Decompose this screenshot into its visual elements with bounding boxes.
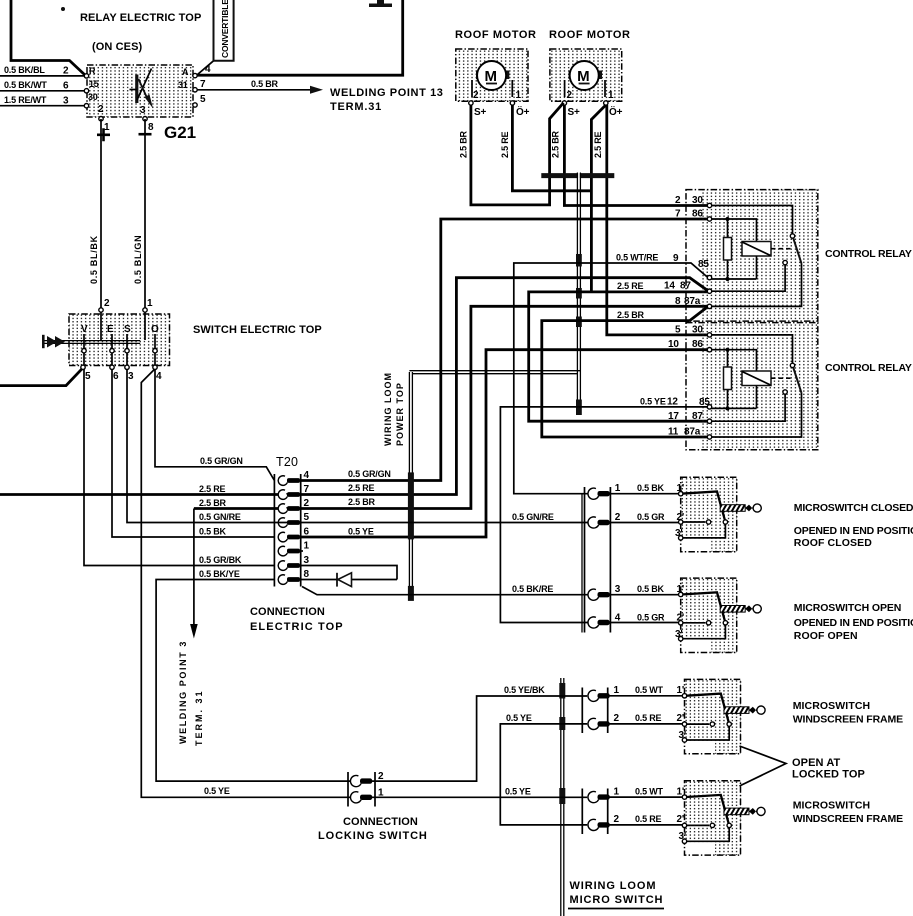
svg-text:0.5 GN/RE: 0.5 GN/RE	[512, 512, 554, 522]
microswitch open body	[679, 578, 762, 652]
svg-text:T20: T20	[276, 455, 298, 469]
locking switch connector pin 1	[350, 792, 372, 803]
G21 bottom pin circles	[99, 117, 103, 121]
svg-text:2': 2'	[677, 713, 685, 724]
svg-text:S+: S+	[474, 107, 486, 118]
svg-text:2.5 RE: 2.5 RE	[348, 483, 375, 493]
T20 pin 4	[278, 476, 287, 486]
loom junction mark YE/BK	[559, 683, 565, 699]
svg-text:1: 1	[614, 685, 620, 696]
wire 0.5 WT to windscreen2 pin 1'	[609, 796, 683, 798]
control relay 1 pin 86 internal	[711, 219, 757, 242]
svg-text:0.5 YE/BK: 0.5 YE/BK	[504, 685, 545, 695]
svg-text:G21: G21	[164, 123, 196, 142]
svg-text:WELDING POINT 3: WELDING POINT 3	[178, 640, 188, 744]
wire 0.5 YE T20 pin6 up to control relay 2 pin 86	[301, 350, 708, 537]
svg-text:3: 3	[63, 96, 69, 107]
control relay 1 pin 30 internal	[711, 206, 793, 234]
svg-text:5: 5	[200, 94, 206, 105]
svg-text:0.5 YE: 0.5 YE	[506, 713, 532, 723]
svg-text:OPENED IN END POSITION: OPENED IN END POSITION	[794, 617, 913, 629]
G21 right pin circles	[193, 73, 197, 77]
svg-text:WINDSCREEN FRAME: WINDSCREEN FRAME	[793, 813, 903, 825]
svg-text:1: 1	[614, 787, 620, 798]
svg-text:2: 2	[615, 512, 621, 523]
svg-text:3': 3'	[675, 629, 683, 640]
wire G21 pin8 down 0.5 BL/GN	[144, 119, 146, 308]
control relay 1 resistor	[727, 219, 729, 279]
svg-text:2: 2	[473, 90, 479, 101]
stray dot	[61, 7, 65, 11]
svg-text:M: M	[485, 68, 498, 85]
svg-text:TERM.31: TERM.31	[330, 101, 382, 113]
control relay 2 pin circles	[707, 333, 711, 337]
wire 2.5 BR motor1 pin2 down and right	[471, 103, 564, 205]
svg-text:30: 30	[692, 325, 703, 336]
wire 0.5 BK/WT to pin 6	[0, 90, 85, 92]
relay electric top box outline left	[11, 0, 86, 76]
svg-text:0.5 GN/RE: 0.5 GN/RE	[199, 512, 241, 522]
control relay 2 dotted body	[702, 323, 818, 450]
svg-text:OPEN AT: OPEN AT	[792, 757, 841, 769]
wire 0.5 YE/BK locking pin2 to windscreen1 pin1	[372, 696, 588, 781]
control relay 2 coil-contact link	[771, 377, 791, 379]
svg-text:0.5 BR: 0.5 BR	[251, 79, 279, 89]
svg-text:6: 6	[63, 81, 69, 92]
svg-text:ROOF OPEN: ROOF OPEN	[794, 630, 858, 642]
svg-text:85: 85	[698, 259, 709, 270]
svg-text:OPENED IN END POSITION: OPENED IN END POSITION	[794, 525, 913, 537]
svg-text:0.5 YE: 0.5 YE	[348, 527, 374, 537]
loom stem junction marks	[576, 254, 582, 267]
svg-text:0.5 BK: 0.5 BK	[637, 584, 665, 594]
svg-text:1: 1	[104, 122, 110, 133]
control relay 2 pin 85 internal	[711, 407, 757, 409]
svg-text:0.5 BK: 0.5 BK	[637, 483, 665, 493]
windscreen 1 connector pin 1	[588, 690, 610, 701]
svg-text:7: 7	[304, 484, 310, 495]
roof motor 2 dotted body	[550, 49, 622, 101]
thick wire from switch pin 5 to left edge	[0, 369, 82, 386]
svg-text:WELDING POINT 13: WELDING POINT 13	[330, 87, 444, 99]
svg-text:0.5 BK: 0.5 BK	[199, 527, 227, 537]
microswitch windscreen frame 1 body	[682, 679, 765, 753]
open at locked top pointer	[740, 746, 787, 786]
svg-text:8: 8	[148, 122, 154, 133]
svg-text:R: R	[89, 66, 96, 76]
T20 pin symbols	[278, 476, 300, 486]
control relay 2 arm to 87a	[711, 393, 802, 437]
svg-text:0.5 WT/RE: 0.5 WT/RE	[616, 253, 658, 263]
wire 0.5 BK switch pin6 to T20 pin6	[112, 369, 274, 537]
control relay 1 coil	[742, 242, 771, 257]
control relay 1 arm to 87a	[711, 264, 802, 307]
svg-text:10: 10	[668, 339, 679, 350]
wire 0.5 YE locking pin1 to windscreen2 pin1	[372, 796, 588, 798]
svg-text:CONVERTIBLE D: CONVERTIBLE D	[220, 0, 230, 58]
svg-text:2.5 BR: 2.5 BR	[459, 130, 469, 158]
svg-text:1': 1'	[677, 787, 685, 798]
svg-text:5: 5	[85, 371, 91, 382]
svg-text:14: 14	[664, 281, 675, 292]
svg-text:1': 1'	[677, 483, 685, 494]
relay G21 dotted body	[87, 65, 193, 117]
switch shaft double line	[45, 341, 141, 344]
svg-text:MICROSWITCH: MICROSWITCH	[793, 800, 871, 812]
svg-text:2: 2	[614, 814, 620, 825]
microswitch closed body	[679, 477, 762, 551]
svg-text:Ö+: Ö+	[516, 105, 530, 118]
svg-text:2.5 BR: 2.5 BR	[551, 130, 561, 158]
wiring loom micro switch upper line	[581, 494, 583, 633]
svg-text:2: 2	[614, 713, 620, 724]
wire 2.5 BR branch to both relay 87a pins	[542, 307, 708, 438]
svg-text:3': 3'	[679, 831, 687, 842]
svg-text:7: 7	[675, 209, 681, 220]
switch internal stubs from pins 2 and 1	[101, 312, 145, 340]
control relay 1 dotted body	[702, 190, 818, 322]
svg-text:8: 8	[675, 296, 681, 307]
relay electric top box outline right	[197, 0, 403, 75]
plus symbol	[97, 128, 110, 141]
svg-text:3': 3'	[675, 528, 683, 539]
control relay 2 resistor	[727, 350, 729, 409]
switch manual actuator handle	[42, 335, 45, 348]
microswitch closed connector pin 2	[588, 517, 610, 528]
svg-text:4: 4	[304, 470, 310, 481]
svg-text:1: 1	[615, 483, 621, 494]
wire 2.5 RE T20 pin7 up to control relay 1 pin 87	[0, 278, 708, 495]
svg-text:0.5 YE: 0.5 YE	[640, 397, 666, 407]
power loom double line	[409, 372, 412, 601]
svg-text:2: 2	[63, 66, 69, 77]
connection locking switch strip	[348, 772, 375, 807]
svg-text:TERM. 31: TERM. 31	[194, 689, 204, 746]
svg-text:0.5 BK/RE: 0.5 BK/RE	[512, 584, 553, 594]
connection microswitch strip upper	[585, 487, 611, 633]
connection windscreen 2 strip	[582, 789, 607, 835]
roof motor 2 motor symbol	[570, 61, 599, 90]
svg-text:2': 2'	[677, 512, 685, 523]
svg-text:2': 2'	[677, 613, 685, 624]
svg-text:S: S	[124, 324, 131, 335]
svg-text:2: 2	[104, 298, 110, 309]
svg-text:1': 1'	[677, 584, 685, 595]
wire 0.5 GR/GN T20 pin4 up to control relay 1 pin 86	[301, 219, 708, 481]
svg-text:0.5 BK/BL: 0.5 BK/BL	[4, 65, 45, 75]
wire 2.5 BR motor2 pin2 straight down to control relay 1 pin 30	[564, 105, 707, 206]
control relay 1 contact pivot	[790, 234, 794, 238]
svg-text:1: 1	[147, 298, 153, 309]
minus symbol	[139, 133, 152, 136]
svg-text:9: 9	[673, 253, 679, 264]
roof motor 1 pin circles	[469, 101, 473, 105]
wiring loom stem double line	[577, 173, 580, 401]
control relay 1 coil-contact link	[771, 248, 791, 250]
roof motor 1 brush tabs	[476, 71, 483, 80]
svg-text:WIRING LOOM: WIRING LOOM	[383, 372, 393, 446]
svg-text:31: 31	[178, 80, 188, 90]
control relay 2 coil	[742, 371, 771, 386]
wire 1.5 RE/WT to pin 3	[0, 105, 85, 107]
svg-text:0.5 BL/GN: 0.5 BL/GN	[133, 235, 143, 284]
svg-text:E: E	[107, 324, 114, 335]
svg-text:POWER TOP: POWER TOP	[395, 382, 405, 446]
svg-text:3: 3	[615, 584, 621, 595]
svg-text:MICROSWITCH OPEN: MICROSWITCH OPEN	[794, 602, 901, 614]
wire 2.5 RE motor1 pin1 down	[512, 105, 591, 191]
wire 0.5 GR/GN switch pin4 to T20 pin4	[155, 369, 274, 481]
svg-text:87a: 87a	[684, 427, 701, 438]
roof motor 2 brush tabs	[569, 71, 576, 80]
wire 0.5 WT to windscreen1 pin 1'	[609, 695, 683, 697]
svg-text:0.5 GR: 0.5 GR	[637, 613, 665, 623]
wire 2.5 RE branch to both relay 87 pins	[529, 292, 710, 421]
svg-text:2: 2	[304, 498, 310, 509]
svg-text:MICROSWITCH CLOSED: MICROSWITCH CLOSED	[794, 502, 913, 514]
svg-text:86: 86	[692, 209, 703, 220]
wire 0.5 GR to microswitch open pin 2'	[609, 622, 679, 624]
svg-text:12: 12	[667, 397, 678, 408]
wire G21 pin1 down 0.5 BL/BK	[100, 119, 102, 308]
svg-text:0.5 YE: 0.5 YE	[505, 787, 531, 797]
G21 contact bar	[135, 75, 138, 104]
svg-text:15: 15	[89, 79, 99, 89]
svg-text:17: 17	[668, 411, 679, 422]
wire diagonal pin4 to convertible box	[198, 61, 214, 75]
svg-text:3': 3'	[679, 730, 687, 741]
svg-text:3: 3	[304, 555, 310, 566]
power loom top double line	[409, 371, 580, 374]
wire 2.5 RE motor2 pin1 down to control relay 2 pin 30	[607, 105, 708, 335]
wire 0.5 GN/RE T20 pin5 to microswitch closed pin 2	[274, 522, 587, 524]
svg-text:8: 8	[304, 569, 310, 580]
G21 left pin circles	[84, 74, 88, 78]
wire 0.5 BK to microswitch closed pin 1'	[609, 493, 679, 495]
switch top pin circles	[99, 308, 103, 312]
wire 0.5 BK/BL to pin 2	[0, 75, 85, 77]
wire 2.5 BR T20 pin2 up to control relay 1 pin 87a and motor1	[194, 306, 708, 508]
G21 contact arrow	[139, 79, 149, 100]
control relay 1 contact arm	[793, 238, 801, 264]
svg-text:4: 4	[156, 371, 162, 382]
wire 2.5 RE motor2 pin1 diagonal down	[591, 105, 605, 292]
svg-text:RELAY ELECTRIC TOP: RELAY ELECTRIC TOP	[80, 12, 201, 24]
svg-text:30: 30	[692, 195, 703, 206]
svg-text:SWITCH ELECTRIC TOP: SWITCH ELECTRIC TOP	[193, 324, 322, 336]
G21 contact tick	[130, 89, 137, 91]
svg-text:0.5 GR/BK: 0.5 GR/BK	[199, 555, 242, 565]
svg-text:A: A	[182, 67, 189, 77]
microswitch open connector pin 4	[588, 617, 610, 628]
control relay 2 pin 86 internal	[711, 350, 757, 371]
svg-text:CONNECTION: CONNECTION	[343, 816, 418, 828]
connection electric top strip	[274, 474, 300, 587]
svg-text:1': 1'	[677, 685, 685, 696]
svg-text:ROOF CLOSED: ROOF CLOSED	[794, 537, 872, 549]
T20 pin1 stub	[301, 550, 303, 552]
connection windscreen 1 strip	[582, 688, 607, 734]
svg-text:2: 2	[98, 104, 104, 115]
svg-text:0.5 GR/GN: 0.5 GR/GN	[348, 469, 391, 479]
svg-text:3: 3	[128, 371, 134, 382]
control relay 2 contact pivot	[790, 363, 794, 367]
svg-text:0.5 YE: 0.5 YE	[204, 786, 230, 796]
wiring loom junction bar	[541, 173, 614, 178]
svg-text:(ON CES): (ON CES)	[92, 41, 143, 53]
roof motor 1 internal wires	[472, 80, 512, 97]
svg-text:0.5 WT: 0.5 WT	[635, 685, 664, 695]
svg-text:ROOF MOTOR: ROOF MOTOR	[549, 29, 631, 41]
svg-text:3: 3	[140, 105, 146, 116]
convertible determination box	[214, 0, 234, 61]
locking switch connector pin 2	[350, 775, 372, 786]
welding point 3 ground wire	[193, 509, 195, 627]
svg-text:4: 4	[615, 613, 621, 624]
wire 0.5 BK/RE T20 pin8 to microswitch open pin 3	[302, 587, 588, 595]
switch internal contact stubs	[84, 334, 155, 348]
roof motor 2 internal wires	[565, 80, 605, 97]
svg-text:0.5 GR: 0.5 GR	[637, 512, 665, 522]
svg-text:ROOF MOTOR: ROOF MOTOR	[455, 29, 537, 41]
wire 0.5 YE microswitch open pin2 up to control relay 2 pin 85	[500, 407, 707, 623]
control relay 2 contact 87	[783, 390, 787, 394]
svg-text:7: 7	[200, 79, 206, 90]
wiring loom micro switch lower double line	[561, 678, 564, 916]
svg-text:2.5 BR: 2.5 BR	[348, 497, 376, 507]
svg-text:ELECTRIC TOP: ELECTRIC TOP	[250, 621, 344, 633]
wire 0.5 GR/BK switch pin5 to T20 pin3	[84, 369, 274, 566]
svg-text:Ö+: Ö+	[609, 105, 623, 118]
wire 0.5 GR to microswitch closed pin 2'	[609, 522, 679, 524]
svg-text:1: 1	[516, 90, 522, 101]
svg-text:1: 1	[304, 541, 310, 552]
svg-text:87: 87	[680, 281, 691, 292]
svg-text:0.5 BK/YE: 0.5 BK/YE	[199, 569, 240, 579]
svg-text:MICROSWITCH: MICROSWITCH	[793, 700, 871, 712]
svg-text:0.5 RE: 0.5 RE	[635, 713, 662, 723]
svg-text:0.5 RE: 0.5 RE	[635, 814, 662, 824]
svg-text:5: 5	[304, 512, 310, 523]
svg-text:30: 30	[88, 92, 98, 102]
svg-text:S+: S+	[568, 107, 580, 118]
svg-text:2.5 RE: 2.5 RE	[199, 484, 226, 494]
svg-text:0.5 BL/BK: 0.5 BL/BK	[89, 235, 99, 284]
wire T20 pin8 to diode	[301, 579, 337, 581]
svg-text:2.5 RE: 2.5 RE	[500, 131, 510, 158]
svg-text:6: 6	[113, 371, 119, 382]
loom junction mark YE	[559, 717, 565, 730]
svg-text:87: 87	[692, 411, 703, 422]
microswitch closed connector pin 1	[588, 488, 610, 499]
windscreen 2 connector pin 2	[588, 819, 610, 830]
svg-text:LOCKED TOP: LOCKED TOP	[792, 769, 865, 781]
roof motor 2 pin circles	[562, 101, 566, 105]
control relay 2 contact arm	[793, 367, 801, 393]
svg-text:CONNECTION: CONNECTION	[250, 606, 325, 618]
windscreen 1 connector pin 2	[588, 718, 610, 729]
wire 0.5 GN/RE switch pin3 to T20 pin5	[127, 369, 274, 523]
svg-text:0.5 WT: 0.5 WT	[635, 787, 664, 797]
svg-text:86: 86	[692, 339, 703, 350]
wire 0.5 BR pin7 to welding point 13	[197, 89, 312, 91]
control relay 1 pin 85 internal	[711, 278, 757, 280]
wire 0.5 YE windscreen1 pin2 to windscreen2 pin2	[500, 724, 587, 825]
loom junction mark windscreen2	[559, 788, 565, 804]
svg-text:2': 2'	[677, 814, 685, 825]
svg-text:2.5 RE: 2.5 RE	[617, 281, 644, 291]
svg-text:87a: 87a	[684, 296, 701, 307]
windscreen 2 connector pin 1	[588, 791, 610, 802]
svg-text:2.5 BR: 2.5 BR	[199, 498, 227, 508]
partial numeral 1 top	[377, 0, 384, 5]
wire 0.5 RE to windscreen1 pin 2'	[609, 723, 683, 725]
svg-text:2: 2	[567, 90, 573, 101]
microswitch windscreen frame 2 body	[682, 781, 765, 855]
svg-text:O: O	[151, 324, 159, 335]
wire 0.5 WT/RE microswitch closed pin1 up to control relay 1 pin 85	[514, 263, 708, 494]
svg-text:0.5 GR/GN: 0.5 GR/GN	[200, 456, 243, 466]
svg-text:CONTROL RELAY: CONTROL RELAY	[825, 248, 912, 260]
roof motor 1 dotted body	[456, 49, 528, 101]
svg-text:4: 4	[205, 64, 211, 75]
svg-text:WINDSCREEN FRAME: WINDSCREEN FRAME	[793, 714, 903, 726]
control relay 1 contact 87	[783, 260, 787, 264]
svg-text:V: V	[81, 324, 88, 335]
svg-text:M: M	[577, 68, 590, 85]
switch internal contact circles	[82, 349, 86, 353]
svg-text:0.5 BK/WT: 0.5 BK/WT	[4, 80, 47, 90]
svg-text:5: 5	[675, 325, 681, 336]
switch bottom stubs	[84, 353, 155, 365]
switch bottom pin circles	[81, 365, 85, 369]
svg-text:1.5 RE/WT: 1.5 RE/WT	[4, 95, 47, 105]
svg-text:11: 11	[668, 427, 679, 438]
svg-text:2: 2	[675, 195, 681, 206]
power loom junction mark upper	[408, 472, 414, 539]
switch electric top dotted body	[69, 314, 170, 366]
roof motor 1 motor symbol	[477, 61, 506, 90]
control relay 1 pin circles	[707, 203, 711, 207]
diode loop wire T20 pin3	[301, 566, 397, 580]
svg-text:MICRO SWITCH: MICRO SWITCH	[570, 894, 664, 906]
wire 0.5 BK to microswitch open pin 1'	[609, 594, 679, 596]
loom stem end cap	[576, 400, 582, 416]
wire 0.5 RE to windscreen2 pin 2'	[609, 824, 683, 826]
svg-text:CONTROL RELAY: CONTROL RELAY	[825, 362, 912, 374]
svg-text:6: 6	[304, 527, 310, 538]
power loom junction mark lower	[408, 586, 414, 601]
svg-text:85: 85	[699, 397, 710, 408]
svg-text:2.5 RE: 2.5 RE	[593, 131, 603, 158]
diode	[336, 573, 338, 587]
svg-text:WIRING LOOM: WIRING LOOM	[570, 880, 657, 892]
wire 0.5 BK/YE T20 pin8 down to locking switch pin2	[156, 580, 352, 782]
wire 0.5 YE switch pin4 down to locking switch pin1	[141, 370, 352, 798]
microswitch open connector pin 3	[588, 589, 610, 600]
svg-text:2.5 BR: 2.5 BR	[617, 310, 645, 320]
control relay 2 pin 30 internal	[711, 335, 793, 363]
G21 contact arm	[137, 69, 152, 101]
svg-text:LOCKING SWITCH: LOCKING SWITCH	[318, 830, 428, 842]
svg-text:1: 1	[608, 90, 614, 101]
